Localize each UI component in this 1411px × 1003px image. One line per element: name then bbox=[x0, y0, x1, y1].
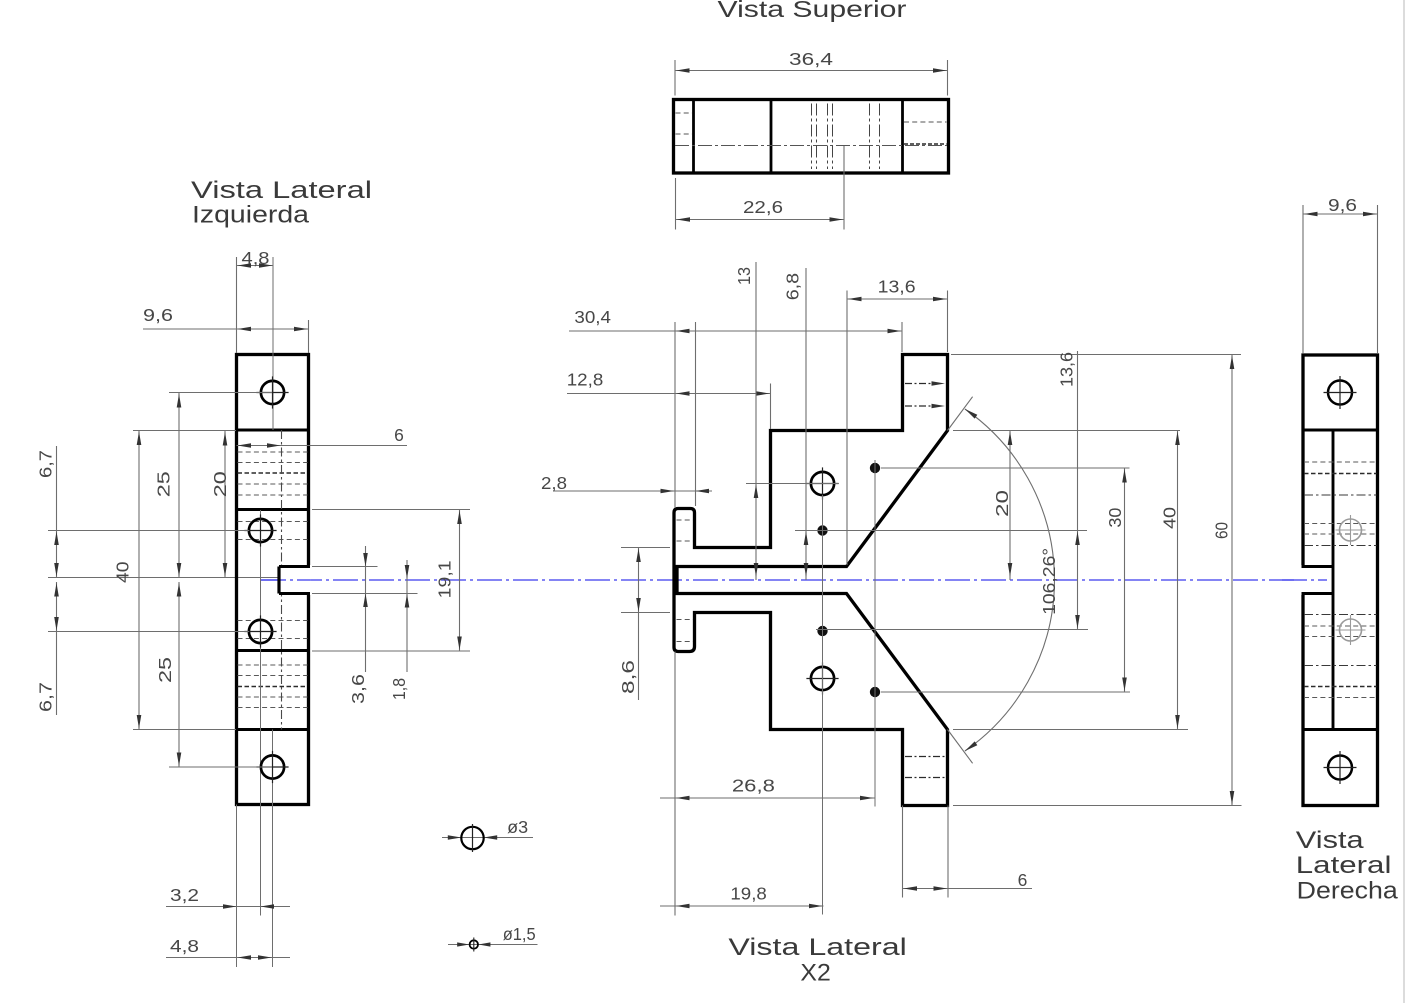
right view hidden line 3 bbox=[1304, 494, 1377, 496]
ext hole4 horizontal bbox=[169, 766, 272, 768]
top view hidden line left cell a bbox=[676, 112, 693, 114]
dim 4,8 top ext left bbox=[236, 257, 238, 353]
right view hidden line 2 bbox=[1304, 473, 1377, 475]
top view outline bbox=[674, 100, 949, 174]
ext hole1 horizontal bbox=[169, 392, 272, 394]
svg-text:9,6: 9,6 bbox=[143, 305, 173, 325]
svg-text:Vista Superior: Vista Superior bbox=[718, 0, 907, 22]
right view hidden hole upper bbox=[1336, 515, 1366, 545]
dim 6,7 top bbox=[36, 446, 59, 578]
left view hidden line lower 3 bbox=[238, 686, 308, 688]
right view title line 3 bbox=[1297, 878, 1398, 905]
svg-text:40: 40 bbox=[113, 561, 133, 583]
right view divider bottom bbox=[1303, 728, 1378, 731]
left view hole hidden line 1 bbox=[238, 521, 308, 523]
top view hidden line right cell b bbox=[904, 143, 947, 145]
dim 3,2 bbox=[166, 885, 290, 909]
center flange hidden line 4 bbox=[677, 641, 694, 643]
left view hidden line upper 3 bbox=[238, 472, 308, 474]
centerline left extension (gray) bbox=[48, 577, 279, 579]
svg-text:6,8: 6,8 bbox=[783, 273, 803, 300]
center small hole lower-inner (ø1,5) bbox=[817, 626, 827, 636]
left view hole top (ø3) bbox=[256, 376, 288, 408]
top view hole axis line 3 bbox=[827, 104, 829, 170]
legend ø3 symbol bbox=[442, 817, 533, 852]
dim 1,8 bbox=[389, 560, 409, 700]
right view hidden line 9 bbox=[1304, 636, 1377, 638]
left view title line 1 bbox=[191, 177, 372, 204]
svg-text:6,7: 6,7 bbox=[36, 450, 56, 478]
center flange hidden line 3 bbox=[677, 619, 694, 621]
svg-text:6,7: 6,7 bbox=[36, 682, 56, 712]
svg-text:40: 40 bbox=[1160, 507, 1180, 529]
ext lower inner dot row bbox=[816, 629, 1088, 631]
right view hidden line 10 bbox=[1304, 665, 1377, 667]
dim 6 bottom bbox=[903, 870, 1033, 891]
dim 22,6 extension left bbox=[675, 178, 677, 230]
dim 20 right bbox=[992, 431, 1012, 581]
top view divider mid bbox=[770, 101, 773, 172]
top view centerline bbox=[675, 145, 947, 147]
svg-text:ø1,5: ø1,5 bbox=[503, 924, 536, 944]
dim 30 right bbox=[1105, 468, 1127, 692]
left view divider 3 bbox=[237, 649, 309, 652]
dim 6 bbox=[237, 425, 408, 448]
top tab axis line 1 bbox=[905, 381, 945, 386]
right view hidden line 4 bbox=[1304, 523, 1377, 525]
drawing sheet right edge bbox=[1403, 0, 1405, 1003]
ext arm bottom (8,6) bbox=[621, 612, 670, 614]
svg-text:Vista Lateral: Vista Lateral bbox=[191, 177, 372, 204]
dim 19,1 bbox=[435, 510, 462, 652]
dim 4,8 bottom bbox=[166, 936, 290, 960]
right view title line 2 bbox=[1296, 852, 1392, 879]
left view hidden line upper 2 bbox=[238, 462, 308, 464]
svg-text:60: 60 bbox=[1212, 522, 1232, 539]
left view hole hidden line 2 bbox=[238, 539, 308, 541]
svg-text:26,8: 26,8 bbox=[732, 776, 775, 796]
svg-text:12,8: 12,8 bbox=[567, 370, 604, 390]
left view hidden line upper 5 bbox=[238, 494, 308, 496]
left view hole upper-mid (ø3) bbox=[244, 514, 276, 546]
svg-text:1,8: 1,8 bbox=[389, 678, 409, 700]
svg-text:3,6: 3,6 bbox=[348, 674, 368, 704]
ext tab left vertical bottom bbox=[902, 806, 904, 898]
dim 9,6 left view bbox=[143, 305, 309, 331]
top tab axis line 2 bbox=[905, 404, 945, 409]
ext arm top (8,6) bbox=[621, 547, 670, 549]
left view hole column axis bbox=[260, 510, 262, 916]
ext flange left vertical bottom bbox=[674, 652, 676, 916]
svg-text:25: 25 bbox=[155, 657, 175, 683]
ext body left vertical bbox=[770, 384, 772, 430]
dim 36,4 extension left bbox=[674, 60, 676, 96]
dim 9,6 right ext right bbox=[1377, 205, 1379, 353]
right view hidden line 8 bbox=[1304, 625, 1377, 627]
left view hidden line lower 5 bbox=[238, 707, 308, 709]
top view hole axis line 2 bbox=[816, 104, 818, 170]
ext lower outer dot row bbox=[881, 691, 1130, 693]
legend ø1,5 symbol bbox=[448, 924, 538, 951]
center small hole lower-outer (ø1,5) bbox=[870, 687, 880, 697]
ext upper hole row bbox=[746, 483, 838, 485]
right view hole top (ø3) bbox=[1324, 376, 1357, 409]
dim 13,6 right bbox=[1057, 351, 1080, 630]
top view title bbox=[718, 0, 907, 22]
ext body top right bbox=[953, 430, 1180, 432]
right view hidden line 12 bbox=[1304, 697, 1377, 699]
left view hole hidden line 4 bbox=[238, 638, 308, 640]
right view hidden hole lower bbox=[1336, 615, 1366, 645]
center view outline bbox=[674, 355, 948, 806]
dim 3,6 bbox=[348, 546, 368, 704]
ext tab right vertical top bbox=[947, 291, 949, 353]
dim 25 top bbox=[153, 393, 181, 578]
ext tab bottom right bbox=[953, 805, 1242, 807]
svg-text:22,6: 22,6 bbox=[743, 197, 783, 217]
dim 6,7 bottom bbox=[36, 582, 59, 715]
svg-text:9,6: 9,6 bbox=[1328, 195, 1357, 215]
svg-text:X2: X2 bbox=[800, 959, 830, 986]
left view hole lower-mid (ø3) bbox=[244, 615, 276, 647]
center view title line 2 bbox=[800, 959, 830, 986]
svg-text:19,1: 19,1 bbox=[435, 560, 455, 598]
angle text 106,26° bbox=[1039, 548, 1059, 615]
bottom tab axis line 1 bbox=[905, 756, 945, 758]
right view outline bbox=[1303, 355, 1378, 806]
right view hidden line 5 bbox=[1304, 533, 1377, 535]
left view hidden line lower 4 bbox=[238, 696, 308, 698]
svg-text:30,4: 30,4 bbox=[574, 307, 611, 327]
svg-text:Derecha: Derecha bbox=[1297, 878, 1398, 905]
left view hidden line upper 4 bbox=[238, 483, 308, 485]
right view divider top bbox=[1303, 429, 1378, 432]
dim 36,4 extension right bbox=[947, 60, 949, 96]
top view hole axis line 4 bbox=[832, 104, 834, 170]
dim 20 left view bbox=[210, 431, 230, 578]
ext bottom edge horizontal (40) bbox=[133, 729, 236, 731]
dim 22,6 bbox=[676, 197, 845, 222]
left view hidden line upper 1 bbox=[238, 451, 308, 453]
left view hidden line lower 1 bbox=[238, 664, 308, 666]
ext top edge horizontal (20/40) bbox=[133, 430, 236, 432]
svg-text:ø3: ø3 bbox=[507, 817, 528, 837]
left view hidden line lower 2 bbox=[238, 675, 308, 677]
dim 4,8 top bbox=[237, 248, 274, 268]
top view hidden line left cell b bbox=[676, 133, 693, 135]
svg-text:Vista Lateral: Vista Lateral bbox=[728, 934, 906, 961]
right view hidden line 1 bbox=[1304, 461, 1377, 463]
svg-text:6: 6 bbox=[394, 425, 404, 445]
dim 25 bottom bbox=[155, 582, 181, 767]
left view outline bbox=[237, 355, 309, 805]
ext flange right vertical bbox=[695, 322, 697, 506]
svg-text:2,8: 2,8 bbox=[541, 473, 567, 493]
dim 22,6 extension right bbox=[843, 146, 845, 230]
svg-text:4,8: 4,8 bbox=[170, 936, 199, 956]
svg-text:36,4: 36,4 bbox=[789, 49, 833, 69]
dim 9,6 ext right bbox=[308, 320, 310, 353]
svg-text:20: 20 bbox=[210, 471, 230, 497]
left view title line 2 bbox=[192, 202, 309, 229]
ext tab left vertical top bbox=[901, 322, 903, 352]
svg-text:Vista: Vista bbox=[1296, 827, 1364, 854]
svg-text:13,6: 13,6 bbox=[1057, 352, 1077, 387]
center hole upper (ø3) bbox=[806, 467, 838, 499]
bottom tab axis line 2 bbox=[905, 777, 945, 779]
ext flange left vertical bbox=[674, 322, 676, 508]
left view left ext bottom bbox=[236, 805, 238, 968]
dim 13 (hole row to center) bbox=[734, 262, 759, 580]
dim 36,4 bbox=[675, 49, 948, 73]
center dot column axis bbox=[874, 460, 876, 807]
svg-text:25: 25 bbox=[153, 471, 173, 497]
dim 13,6 top bbox=[847, 277, 948, 302]
left view hole hidden line 3 bbox=[238, 620, 308, 622]
svg-text:8,6: 8,6 bbox=[618, 660, 638, 694]
svg-text:20: 20 bbox=[992, 490, 1012, 517]
center small hole upper-outer (ø1,5) bbox=[870, 463, 880, 473]
right view title line 1 bbox=[1296, 827, 1364, 854]
top view small hole axis 2 bbox=[879, 104, 881, 170]
svg-text:6: 6 bbox=[1018, 870, 1028, 890]
svg-text:13: 13 bbox=[734, 267, 754, 285]
center hole column axis bbox=[822, 495, 824, 915]
top view divider left bbox=[692, 101, 695, 172]
ext tab right vertical bottom bbox=[947, 806, 949, 898]
left view divider 1 bbox=[237, 429, 309, 432]
dim 19,8 bbox=[660, 884, 824, 909]
dim 60 right bbox=[1212, 355, 1235, 806]
dim 3,6 ext top bbox=[312, 566, 378, 568]
center view title line 1 bbox=[728, 934, 906, 961]
svg-text:Lateral: Lateral bbox=[1296, 852, 1392, 879]
right view hole bottom (ø3) bbox=[1324, 751, 1357, 784]
svg-text:30: 30 bbox=[1105, 507, 1125, 527]
right view vertical divider bbox=[1332, 430, 1335, 730]
svg-text:106,26°: 106,26° bbox=[1039, 548, 1059, 615]
ext hole3 horizontal bbox=[48, 631, 249, 633]
ext hole2 horizontal bbox=[48, 530, 249, 532]
top view hidden line right cell a bbox=[904, 121, 947, 123]
dim 6,8 (dot row to center) bbox=[783, 268, 809, 580]
dim 8,6 bbox=[618, 548, 641, 701]
top view small hole axis 1 bbox=[869, 104, 871, 170]
svg-text:3,2: 3,2 bbox=[170, 885, 199, 905]
left view axis dashdot bbox=[281, 430, 283, 730]
ext upper inner dot row bbox=[795, 530, 1087, 532]
right view hidden line 7 bbox=[1304, 614, 1377, 616]
left view divider 2 bbox=[237, 508, 309, 511]
left view bottom hole axis bbox=[272, 730, 274, 968]
right view hidden line 6 bbox=[1304, 545, 1377, 547]
svg-text:Izquierda: Izquierda bbox=[192, 202, 309, 229]
right view hidden line 11 bbox=[1304, 686, 1377, 688]
ext upper outer dot row bbox=[881, 467, 1130, 469]
ext vertex vertical (13,6) bbox=[846, 291, 848, 566]
dim 12,8 bbox=[567, 370, 771, 396]
center hole lower (ø3) bbox=[806, 662, 838, 694]
dim 19,1 ext top bbox=[312, 509, 470, 511]
ext body bottom right bbox=[953, 729, 1188, 731]
dim 30,4 bbox=[569, 307, 902, 333]
dim 40 right bbox=[1160, 431, 1180, 730]
dim 9,6 right bbox=[1303, 195, 1378, 216]
angle arc 106,26° bbox=[964, 407, 1055, 753]
dim 26,8 bbox=[660, 776, 875, 801]
ext tab top right bbox=[951, 354, 1241, 356]
left view notch cutout bbox=[261, 565, 311, 595]
dim 9,6 right ext left bbox=[1302, 205, 1304, 353]
diagonal extension bottom bbox=[948, 730, 973, 764]
center flange hidden line 2 bbox=[677, 540, 694, 542]
dim 2,8 bbox=[541, 473, 712, 493]
left view divider 4 bbox=[237, 728, 309, 731]
svg-text:19,8: 19,8 bbox=[730, 884, 766, 904]
dim 3,6 ext bottom bbox=[312, 593, 418, 595]
diagonal extension top bbox=[948, 397, 973, 431]
right view notch cutout bbox=[1282, 565, 1333, 595]
left view top hole axis bbox=[272, 257, 274, 430]
center flange hidden line 1 bbox=[677, 519, 694, 521]
svg-text:4,8: 4,8 bbox=[242, 248, 270, 268]
dim 40 bbox=[113, 431, 142, 730]
dim 19,1 ext bottom bbox=[312, 650, 470, 652]
top view hole axis line 1 bbox=[811, 104, 813, 170]
svg-text:13,6: 13,6 bbox=[878, 277, 916, 297]
left view hole bottom (ø3) bbox=[256, 751, 288, 783]
centerline (horizontal axis) bbox=[261, 579, 1322, 581]
top view divider right bbox=[901, 101, 904, 172]
center small hole upper-inner (ø1,5) bbox=[817, 525, 827, 535]
